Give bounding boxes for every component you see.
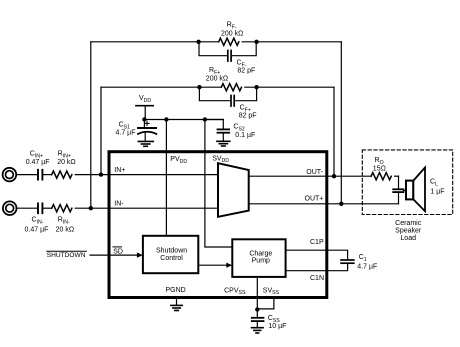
node: RF+ left junction (197, 85, 201, 89)
SHUTDOWN input label (active low) (47, 251, 87, 258)
ground (CS1) (138, 141, 153, 146)
wire CPVSS down (256, 277, 258, 310)
wire SVDD down and over to charge pump (205, 120, 232, 248)
input jack J2 (3, 201, 37, 215)
arrowhead into charge pump (226, 263, 232, 268)
resistor RIN- with value label (52, 205, 109, 234)
svg-text:Load: Load (400, 235, 416, 242)
op-amp A1 (trapezoid) (218, 163, 249, 217)
svg-text:OUT-: OUT- (306, 169, 323, 176)
svg-text:0.1 µF: 0.1 µF (235, 132, 255, 139)
svg-text:0.47 µF: 0.47 µF (25, 226, 49, 233)
capacitor CF+ with value label (199, 87, 256, 119)
supply VDD (136, 95, 153, 119)
svg-text:Speaker: Speaker (395, 227, 422, 234)
svg-text:10 µF: 10 µF (268, 323, 286, 330)
svg-text:SHUTDOWN: SHUTDOWN (47, 252, 86, 259)
resistor RF+ with value label (101, 67, 334, 91)
resistor RO with value label (371, 157, 398, 180)
wire C1N (286, 264, 348, 271)
block: Charge Pump (232, 239, 285, 277)
wire PVDD down into device (165, 120, 167, 236)
wire VDD distribution rail (144, 119, 223, 121)
wire RF+ right leg down to OUT- net (333, 87, 335, 176)
ground (CSS) (252, 328, 264, 333)
arrowhead into shutdown control (137, 253, 143, 258)
svg-text:IN+: IN+ (114, 167, 125, 174)
node SVDD tap (203, 117, 207, 121)
wire RF- left leg down to IN- net (90, 42, 92, 208)
node IN+ (99, 172, 103, 176)
pin label SD (active low) (113, 247, 123, 255)
IC device box U1 (109, 152, 327, 298)
wire IN- to amplifier (109, 207, 218, 209)
wire IN+ to amplifier (109, 174, 218, 176)
capacitor CS2 with value label (205, 120, 255, 141)
speaker symbol (406, 168, 425, 212)
svg-text:15Ω: 15Ω (373, 165, 386, 172)
input jack J1 (3, 168, 38, 182)
node: RF- right junction (254, 40, 258, 44)
svg-text:C1P: C1P (310, 239, 324, 246)
svg-text:SD: SD (113, 248, 123, 255)
svg-text:200 kΩ: 200 kΩ (206, 75, 228, 82)
capacitor CSS with value label (252, 310, 287, 331)
node: RF- left junction (196, 40, 200, 44)
svg-text:20 kΩ: 20 kΩ (56, 226, 74, 233)
wire RF+ left leg down to IN+ net (100, 87, 102, 174)
capacitor CIN- with value label (25, 203, 52, 233)
svg-text:1 µF: 1 µF (430, 189, 444, 196)
wire shutdown control to charge pump (198, 264, 226, 266)
svg-text:Shutdown: Shutdown (156, 247, 187, 254)
capacitor CS1 with value label (polarized) (116, 120, 157, 141)
svg-text:Charge: Charge (249, 251, 272, 258)
svg-text:Pump: Pump (252, 258, 270, 265)
node OUT+ feedback junction (339, 202, 343, 206)
resistor RF- with value label (91, 21, 341, 45)
dashed box: speaker load model (362, 150, 452, 215)
wire OUT- from amplifier to load (249, 175, 371, 177)
wire SVSS down and over (257, 297, 274, 309)
svg-text:82 pF: 82 pF (237, 68, 255, 75)
wire cap to speaker (403, 190, 406, 192)
capacitor C1 with value label (341, 254, 377, 271)
svg-text:Ceramic: Ceramic (395, 220, 422, 227)
label: Ceramic Speaker Load (395, 220, 422, 242)
svg-text:4.7 µF: 4.7 µF (357, 264, 377, 271)
svg-text:20 kΩ: 20 kΩ (57, 159, 75, 166)
capacitor CL with value label (393, 176, 444, 204)
node VSS junction (255, 307, 259, 311)
block: Shutdown Control (143, 236, 198, 273)
svg-text:C1N: C1N (310, 275, 324, 282)
resistor RIN+ with value label (52, 151, 109, 179)
svg-text:Control: Control (160, 255, 183, 262)
node VDD/CS1 (142, 117, 146, 121)
svg-text:IN-: IN- (114, 201, 124, 208)
wire C1P (286, 250, 348, 259)
capacitor CIN+ with value label (26, 151, 52, 180)
svg-text:200 kΩ: 200 kΩ (221, 30, 243, 37)
svg-text:OUT+: OUT+ (305, 196, 324, 203)
node OUT- feedback junction (332, 174, 336, 178)
capacitor CF- with value label (199, 42, 256, 75)
wire RF- right leg down to OUT+ net (340, 42, 342, 204)
ground (CS2) (217, 141, 230, 146)
node: RF+ right junction (254, 85, 258, 89)
node IN- (89, 206, 93, 210)
wire OUT+ from amplifier to load (249, 203, 399, 205)
wire SHUTDOWN to shutdown control (90, 254, 137, 256)
svg-text:0.47 µF: 0.47 µF (26, 159, 50, 166)
svg-text:4.7 µF: 4.7 µF (116, 130, 136, 137)
svg-text:82 pF: 82 pF (239, 113, 257, 120)
svg-text:PGND: PGND (166, 287, 186, 294)
node PVDD tap (164, 117, 168, 121)
ground (PGND) (171, 297, 182, 311)
